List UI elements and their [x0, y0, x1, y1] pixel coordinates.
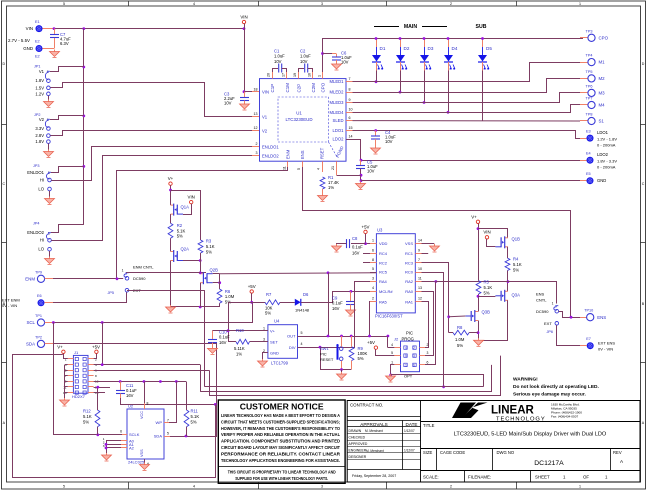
wire ENLDO1 net to U1 [51, 147, 252, 181]
svg-text:SHEET: SHEET [535, 475, 550, 480]
svg-text:SCLK: SCLK [129, 432, 140, 437]
wire JP5 EXT to staircase [131, 290, 205, 292]
svg-text:VERIFY PROPER AND RELIABLE OPE: VERIFY PROPER AND RELIABLE OPERATION IN … [221, 432, 340, 437]
svg-text:14: 14 [418, 239, 422, 243]
test point TP10 ENS [584, 309, 606, 321]
svg-text:DRAWN: DRAWN [349, 429, 362, 433]
wire RA4 down to DIV net [320, 282, 370, 348]
svg-text:1: 1 [579, 2, 581, 6]
svg-text:10V: 10V [274, 59, 282, 64]
wire R10 left [228, 341, 236, 343]
resistor R9 [349, 346, 367, 361]
svg-text:Q2B: Q2B [210, 268, 219, 273]
svg-text:RC2: RC2 [379, 261, 388, 266]
svg-text:9: 9 [418, 248, 420, 252]
svg-text:HI: HI [40, 178, 44, 183]
svg-text:19: 19 [293, 73, 297, 77]
svg-text:PIC: PIC [320, 352, 327, 357]
wire R7 left segment [228, 302, 265, 304]
svg-text:MLED2: MLED2 [330, 90, 345, 95]
wire C2 left lead [299, 69, 305, 73]
svg-text:SDA: SDA [154, 433, 163, 438]
wire JP2 pin1 to bus [50, 116, 84, 120]
resistor R6 [217, 289, 235, 305]
U1 top pin names rotated [270, 82, 326, 92]
capacitor C4 [371, 130, 396, 148]
svg-text:10: 10 [349, 108, 353, 112]
svg-text:1.2V - 1.8V: 1.2V - 1.8V [597, 136, 617, 141]
wire V2 net JP2 to U1 [50, 131, 252, 136]
svg-text:ENLDO2: ENLDO2 [27, 230, 44, 235]
label MAIN with rules [374, 24, 447, 30]
wire V+ jog to R3 rail [171, 191, 201, 241]
svg-text:ENLDO1: ENLDO1 [262, 144, 279, 149]
wire C4 lead [375, 131, 377, 137]
wire C11 top lead [120, 382, 122, 391]
wire C7 leads [54, 29, 56, 35]
svg-text:6: 6 [372, 248, 374, 252]
U3 pin stubs [370, 244, 422, 302]
terminal E1 VIN [35, 20, 43, 32]
svg-text:1: 1 [122, 269, 124, 273]
ground below A pins [102, 453, 112, 461]
power tap VIN top [240, 15, 247, 24]
resistor R8 [453, 325, 469, 348]
wire RC2 stub [363, 262, 370, 264]
svg-text:WARNING!: WARNING! [513, 377, 538, 383]
svg-text:ENM: ENM [25, 276, 35, 281]
wire rail to JP5 pin1 [127, 272, 200, 274]
capacitor C5 [356, 160, 378, 176]
svg-text:0V - VIN: 0V - VIN [598, 347, 613, 352]
test point TP3 CPO [586, 29, 609, 41]
resistor R7 [265, 292, 280, 316]
svg-text:3: 3 [372, 276, 374, 280]
svg-text:GND: GND [23, 46, 33, 51]
svg-text:4: 4 [372, 286, 374, 290]
U2 pin names [129, 411, 162, 457]
svg-text:OUT: OUT [287, 334, 296, 339]
resistor R11 [184, 409, 199, 427]
wire RC1 stub [422, 253, 429, 255]
scale filename sheet row [423, 475, 608, 480]
transistor Q3B [466, 310, 491, 323]
svg-text:U1: U1 [296, 111, 302, 116]
svg-text:HD2X7: HD2X7 [72, 394, 86, 399]
svg-text:R12: R12 [83, 409, 91, 414]
svg-text:ENS: ENS [597, 315, 606, 320]
svg-text:E1: E1 [35, 20, 40, 24]
svg-text:V2: V2 [262, 129, 268, 134]
svg-text:9: 9 [349, 98, 351, 102]
svg-text:PERFORMANCE OR RELIABILITY. C: PERFORMANCE OR RELIABILITY. CONTACT LINE… [221, 451, 341, 456]
svg-text:1.0M: 1.0M [225, 294, 235, 299]
svg-text:C1M: C1M [285, 83, 290, 93]
wire SCL riser [252, 302, 254, 322]
wire SCL down to U2 SCLK [54, 323, 123, 435]
svg-text:TP5: TP5 [586, 70, 593, 74]
wire ENS DC590 to JP6 pin1 [436, 282, 557, 304]
svg-text:21: 21 [331, 166, 335, 170]
svg-text:0 - 200mA: 0 - 200mA [597, 143, 616, 148]
svg-text:M. Merchant: M. Merchant [366, 449, 384, 453]
op-amp U1 LTC3230EUD box [260, 79, 347, 162]
svg-text:E3: E3 [586, 129, 591, 133]
ground below JP1 [44, 100, 54, 108]
svg-text:PIC16F630/ST: PIC16F630/ST [375, 314, 403, 319]
wire JP2 to ground [48, 143, 50, 151]
svg-text:R5: R5 [484, 280, 490, 285]
svg-text:1.5V: 1.5V [35, 85, 44, 90]
wire RC0 down [422, 273, 444, 387]
svg-text:VSS: VSS [140, 449, 144, 457]
svg-text:11: 11 [63, 385, 66, 389]
wire M3 net [353, 93, 581, 103]
svg-text:ENLDO2: ENLDO2 [262, 153, 279, 158]
svg-text:6.3V: 6.3V [60, 41, 69, 46]
svg-text:V+: V+ [270, 328, 276, 333]
svg-text:1: 1 [391, 360, 393, 364]
svg-text:3: 3 [321, 2, 323, 6]
wire RA0 to J2 pin3 [422, 292, 434, 356]
svg-text:5.1K: 5.1K [513, 262, 522, 267]
wire ENM net U1 to JP5 [117, 167, 288, 279]
title block outline [347, 401, 640, 483]
svg-text:LO: LO [38, 187, 44, 192]
svg-text:15: 15 [349, 126, 353, 130]
svg-text:+5V: +5V [367, 340, 375, 345]
svg-text:3: 3 [321, 485, 323, 489]
title block text left table [349, 403, 418, 479]
jumper JP1 [45, 71, 50, 95]
svg-text:CUSTOMER NOTICE: CUSTOMER NOTICE [240, 402, 324, 412]
svg-text:13: 13 [418, 286, 422, 290]
resistor R3 [198, 239, 215, 255]
svg-text:TP8: TP8 [586, 113, 593, 117]
svg-text:1: 1 [65, 357, 67, 361]
svg-text:Q1A: Q1A [181, 205, 190, 210]
wire J1 pin4 to staircase [94, 364, 201, 366]
switch SW1 PIC RESET [336, 344, 343, 361]
wire C8 to VDD [351, 243, 366, 245]
svg-text:HI: HI [40, 238, 44, 243]
svg-text:SCL: SCL [26, 320, 35, 325]
svg-text:LTC3230EUD, 5-LED Main/Sub Dis: LTC3230EUD, 5-LED Main/Sub Display Drive… [454, 432, 607, 438]
svg-text:FILENAME:: FILENAME: [468, 475, 491, 480]
wire to U1 VIN pin [244, 91, 252, 93]
wire R12 bottom [97, 427, 99, 435]
power tap +5V J2 [367, 340, 378, 349]
svg-text:CPO: CPO [599, 35, 609, 40]
svg-text:R4: R4 [513, 257, 519, 262]
svg-text:13: 13 [254, 112, 258, 116]
terminal E3 LDO1 [586, 129, 594, 141]
wire U2 SDA right [164, 436, 217, 438]
svg-text:+5V: +5V [92, 345, 100, 350]
power tap V+ left [168, 176, 174, 185]
svg-text:Serious eye damage may occur.: Serious eye damage may occur. [513, 392, 586, 398]
wire J1 pin6 to staircase [94, 370, 210, 372]
svg-text:Do not look directly at operat: Do not look directly at operating LED. [513, 384, 599, 390]
svg-text:VIN: VIN [26, 26, 33, 31]
power tap V+ J1 [57, 345, 65, 354]
wire R2 to Q2A [170, 238, 172, 251]
jumper JP6 [554, 306, 559, 325]
terminal E6 EXT ENM [37, 294, 45, 306]
svg-text:10: 10 [418, 267, 422, 271]
svg-text:E4: E4 [586, 151, 591, 155]
wire to ground [341, 370, 343, 375]
svg-text:TECHNOLOGY APPLICATIONS ENGINE: TECHNOLOGY APPLICATIONS ENGINEERING FOR … [221, 458, 340, 463]
wire DC590 ENM to U3 RC5 [220, 272, 377, 275]
svg-text:LDO2: LDO2 [333, 137, 345, 142]
svg-text:S1: S1 [599, 119, 605, 124]
customer notice footer text [228, 469, 337, 480]
wire JP3 pin1 to bus [51, 167, 84, 173]
wire Q2B source to ground bus [200, 283, 202, 307]
svg-text:M4: M4 [599, 103, 606, 108]
capacitor C7 [50, 32, 71, 46]
wire JP1 to ground [48, 96, 50, 102]
wire CPO rail [323, 39, 584, 73]
svg-text:VIN: VIN [188, 194, 195, 199]
wire J1 left pins to ground [65, 365, 68, 401]
wire LDO1 net to E3 [353, 131, 581, 139]
svg-text:LTC3230EUD: LTC3230EUD [285, 117, 312, 122]
svg-text:D6: D6 [303, 292, 309, 297]
svg-text:U3: U3 [377, 228, 383, 233]
svg-text:R7: R7 [266, 292, 272, 297]
U4 pin numbers [263, 327, 303, 353]
wire Q1A to R2 [170, 214, 172, 223]
terminal E4 LDO2 [586, 151, 594, 163]
svg-text:OF: OF [583, 475, 589, 480]
ground below JP3 [45, 197, 55, 205]
svg-text:3: 3 [256, 151, 258, 155]
svg-text:TECHNOLOGY: TECHNOLOGY [496, 417, 546, 423]
wire M4 net [353, 105, 581, 113]
svg-text:5%: 5% [484, 291, 490, 296]
svg-text:PIC: PIC [406, 331, 413, 336]
wire M1 net [353, 63, 581, 82]
ground below JP4 [45, 257, 55, 265]
wire J1 pin2 to +5V [94, 354, 97, 359]
svg-text:1.0M: 1.0M [455, 337, 465, 342]
svg-text:1/12/07: 1/12/07 [404, 429, 415, 433]
wire to R6 top [219, 283, 221, 289]
wire SDA net [53, 343, 217, 345]
wire R11 top [186, 382, 188, 411]
svg-text:11: 11 [282, 166, 286, 170]
wire to C6 [323, 53, 333, 55]
LED D2 [396, 39, 410, 93]
svg-text:5.1K: 5.1K [191, 414, 200, 419]
terminal E5 GND [586, 172, 594, 184]
svg-text:1.2V: 1.2V [35, 91, 44, 96]
svg-text:DIV: DIV [289, 345, 296, 350]
wire C5 bottom to gnd node [360, 169, 362, 184]
wire C2 right lead [308, 69, 313, 73]
svg-text:2: 2 [427, 343, 429, 347]
svg-text:10V: 10V [385, 139, 393, 144]
customer notice body text [221, 413, 341, 463]
svg-text:VIN: VIN [483, 230, 490, 235]
svg-text:E5: E5 [586, 172, 591, 176]
svg-text:5.11K: 5.11K [234, 346, 245, 351]
svg-text:4: 4 [391, 343, 393, 347]
svg-text:4: 4 [317, 168, 321, 170]
svg-text:APPROVALS: APPROVALS [360, 422, 388, 427]
ground below C5 [356, 182, 366, 190]
wire J1 pin1 to V+ [64, 354, 68, 359]
svg-text:D: D [2, 62, 5, 66]
svg-text:12: 12 [418, 297, 422, 301]
resistor R1 [320, 175, 339, 190]
svg-text:HOWEVER, IT REMAINS THE CUSTOM: HOWEVER, IT REMAINS THE CUSTOMER'S RESPO… [221, 426, 340, 431]
wire C11 bottom [121, 398, 216, 405]
wire D6 to U3 MCLR [301, 292, 372, 303]
wire JP4 pin1 to bus [51, 225, 84, 233]
svg-text:TP2: TP2 [35, 335, 42, 339]
capacitor C10 [208, 330, 230, 349]
svg-text:12: 12 [254, 126, 258, 130]
svg-text:LDO1: LDO1 [597, 130, 609, 135]
svg-text:ENS: ENS [536, 292, 545, 297]
svg-text:1.8V: 1.8V [35, 139, 44, 144]
svg-text:LO: LO [38, 247, 44, 252]
svg-text:2: 2 [413, 346, 415, 350]
svg-text:CPO: CPO [320, 82, 325, 92]
jumper JP2 [45, 119, 50, 143]
svg-text:ENM: ENM [285, 149, 290, 159]
svg-text:CAGE CODE: CAGE CODE [440, 450, 465, 455]
svg-text:RSET: RSET [320, 147, 325, 159]
wire C1 left lead [273, 69, 279, 73]
svg-text:16: 16 [308, 73, 312, 77]
svg-text:3: 3 [427, 351, 429, 355]
wire RA2 down to J2 pin6 [425, 282, 436, 365]
wire WP to bus [164, 382, 177, 423]
wire bus h395 [209, 356, 500, 396]
U1 pin stubs [273, 72, 353, 175]
U3 pin numbers [372, 239, 422, 301]
capacitor C2 [300, 49, 311, 73]
resistor R10 [234, 328, 250, 357]
svg-text:C: C [2, 182, 5, 186]
svg-text:1: 1 [263, 327, 265, 331]
wire RC5 in [370, 272, 376, 274]
svg-text:V+: V+ [168, 176, 174, 181]
svg-text:V1: V1 [39, 69, 45, 74]
wire SW1 R9 bottom bus [320, 369, 351, 371]
U1 left pin names [262, 90, 279, 159]
wire C3 lead [244, 92, 246, 98]
svg-text:C1P: C1P [270, 84, 275, 93]
svg-text:MLED3: MLED3 [330, 100, 345, 105]
svg-text:Fax: (408)434-0507: Fax: (408)434-0507 [551, 415, 578, 419]
J1 pin pads and numbers [63, 357, 99, 395]
svg-text:5: 5 [301, 331, 303, 335]
svg-text:16V: 16V [219, 340, 227, 345]
ground below J2 [386, 374, 396, 382]
wire J1 pin10 +5V bus [94, 381, 186, 383]
svg-text:Q3A: Q3A [512, 293, 521, 298]
svg-text:4: 4 [193, 485, 195, 489]
wire to Q3A gate [478, 296, 495, 298]
svg-text:RA1: RA1 [405, 299, 414, 304]
customer notice box [218, 400, 345, 483]
connector J1 HD2X7 box [73, 355, 88, 393]
wire JP3 LO to ground [49, 191, 51, 199]
wire Q2B drain lead [213, 273, 220, 275]
wire TP9 to JP5 DC590 [53, 278, 123, 280]
svg-text:0.1uF: 0.1uF [332, 301, 343, 306]
svg-text:DC590: DC590 [536, 309, 549, 314]
wire RA5 down [369, 302, 372, 337]
svg-text:+5V: +5V [362, 224, 370, 229]
U2 pin numbers [103, 402, 169, 466]
svg-text:5%: 5% [177, 234, 183, 239]
wire SDA down to U2 [216, 344, 218, 436]
svg-text:R11: R11 [191, 409, 199, 414]
U3 pin names [379, 241, 414, 304]
ground below C10 [208, 346, 218, 354]
svg-text:SLED: SLED [333, 118, 344, 123]
transistor Q2A [171, 247, 190, 263]
test point TP8 S1 [586, 113, 605, 125]
wire Q1B gate to VIN [487, 239, 496, 247]
svg-text:RC0: RC0 [405, 270, 414, 275]
svg-text:4: 4 [193, 2, 195, 6]
svg-text:1/12/07: 1/12/07 [404, 448, 415, 452]
svg-text:1.8V: 1.8V [35, 78, 44, 83]
svg-text:D2: D2 [404, 46, 410, 51]
capacitor C6 [332, 51, 352, 65]
logo address text [551, 403, 582, 419]
power tap VIN right [483, 230, 490, 240]
wire E6 to JP5 EXT [53, 292, 127, 303]
svg-text:SUB: SUB [476, 24, 487, 30]
svg-text:RC3: RC3 [405, 261, 414, 266]
wire RA2 out [422, 281, 436, 283]
op-amp U3 PIC16F630 box [376, 234, 415, 313]
wire JP6 to TP10 [559, 312, 580, 318]
jumper JP5 [124, 273, 129, 292]
svg-text:GND: GND [597, 178, 606, 183]
wire PGND to gnd node [337, 175, 361, 177]
wire JP5 EXT down [204, 290, 206, 387]
svg-text:17: 17 [282, 73, 286, 77]
J2 pin squares and numbers [391, 343, 428, 367]
svg-text:RA5: RA5 [379, 299, 388, 304]
svg-text:C2M: C2M [311, 83, 316, 93]
svg-text:VIN: VIN [262, 90, 269, 95]
svg-text:Friday, September 28, 2007: Friday, September 28, 2007 [352, 474, 396, 478]
svg-text:CONTRACT NO.: CONTRACT NO. [350, 403, 383, 408]
svg-text:1.0uF: 1.0uF [274, 54, 285, 59]
wire U4 DIV down [298, 348, 342, 370]
U1 pin numbers [254, 73, 353, 170]
LED D5 [478, 39, 492, 121]
svg-text:VCC: VCC [140, 411, 144, 419]
wire V+ rail to U4 [212, 330, 268, 332]
svg-text:WP: WP [156, 420, 163, 425]
svg-text:1: 1 [372, 239, 374, 243]
wire V+ rail to Q1A [170, 185, 172, 205]
U4 pin names [270, 328, 296, 355]
capacitor C8 [347, 236, 364, 256]
power tap V+ right [471, 215, 479, 224]
